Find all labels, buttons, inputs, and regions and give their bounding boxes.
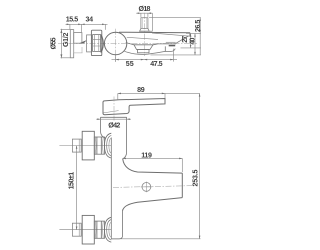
svg-text:253.5: 253.5 <box>191 169 199 186</box>
svg-text:Ø42: Ø42 <box>108 121 120 129</box>
svg-text:40: 40 <box>189 38 197 45</box>
svg-text:55: 55 <box>126 60 134 68</box>
svg-text:119: 119 <box>141 152 152 160</box>
svg-text:26.5: 26.5 <box>194 20 202 32</box>
svg-text:Ø55: Ø55 <box>49 37 57 49</box>
svg-text:89: 89 <box>137 86 145 94</box>
svg-text:34: 34 <box>86 16 94 24</box>
svg-text:15.5: 15.5 <box>66 16 78 24</box>
svg-text:47.5: 47.5 <box>150 60 162 68</box>
svg-text:Ø18: Ø18 <box>139 5 151 13</box>
svg-text:150±1: 150±1 <box>67 172 75 190</box>
svg-text:G1/2: G1/2 <box>62 33 70 48</box>
